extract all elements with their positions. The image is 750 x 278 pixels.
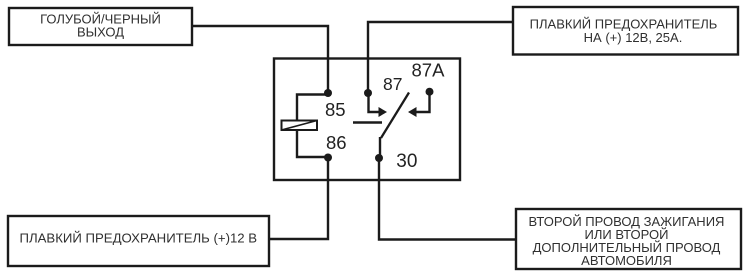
svg-text:ВЫХОД: ВЫХОД [77, 24, 124, 39]
pin 87 junction dot [364, 89, 372, 97]
label box: fuse (+)12V [8, 216, 269, 266]
svg-text:30: 30 [396, 151, 417, 172]
relay coil [282, 121, 318, 131]
wire: coil to pin 86 [297, 130, 328, 157]
svg-text:85: 85 [325, 99, 346, 120]
pin 30 junction dot [375, 154, 383, 162]
svg-text:НА (+) 12В, 25А.: НА (+) 12В, 25А. [584, 30, 683, 45]
label box: fuse (+) 12V 25A [513, 7, 738, 55]
contact arm: pin 87 arrow [369, 93, 388, 117]
label box: blue/black output [9, 8, 192, 45]
fixed contact bar [353, 121, 382, 123]
pin 87A junction dot [426, 88, 434, 96]
label box: second ignition wire [516, 209, 741, 269]
relay box K1 [274, 59, 460, 181]
svg-text:87А: 87А [412, 60, 446, 81]
wire: pin 85 to coil [297, 95, 328, 121]
wire: output box to pin 85 [192, 26, 328, 93]
switch armature blade [381, 93, 409, 139]
wire: pin 30 to ignition wire box [379, 158, 516, 240]
pin 85 junction dot [324, 89, 332, 97]
contact arm: pin 87A arrow [408, 92, 430, 118]
svg-text:ПЛАВКИЙ ПРЕДОХРАНИТЕЛЬ (+)12 В: ПЛАВКИЙ ПРЕДОХРАНИТЕЛЬ (+)12 В [19, 230, 257, 245]
svg-text:АВТОМОБИЛЯ: АВТОМОБИЛЯ [581, 253, 672, 268]
svg-text:86: 86 [326, 132, 347, 153]
wire: pin 87 to fuse 25A box [368, 22, 513, 93]
wire: blade to pin 30 [379, 137, 381, 158]
svg-text:87: 87 [383, 74, 402, 94]
pin 86 junction dot [324, 154, 332, 162]
wire: pin 86 to fuse 12V box [269, 157, 328, 239]
